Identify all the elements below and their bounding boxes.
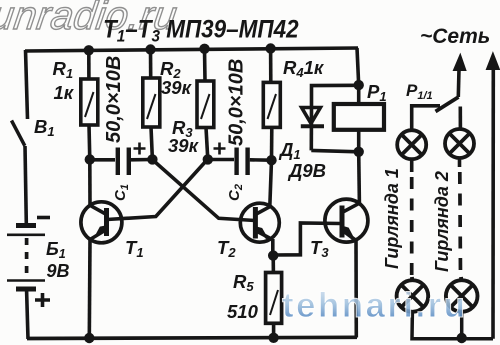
mains arrow right wire <box>486 53 499 339</box>
wire node A to T1 collector <box>88 160 92 206</box>
wire T2 emitter to T3 base <box>273 223 340 255</box>
wire diode branch top <box>312 85 359 108</box>
wire top rail <box>25 48 358 51</box>
label D1 Д9В <box>278 139 326 181</box>
watermark unradio.ru <box>0 0 180 38</box>
capacitor C2 <box>237 148 248 176</box>
junction dot T1 emitter at rail <box>84 333 94 343</box>
svg-text:Гирлянда 1: Гирлянда 1 <box>382 168 402 269</box>
svg-text:R41к: R41к <box>283 57 325 80</box>
switch B1 <box>12 121 25 146</box>
wire diode bottom to T3 collector node <box>311 150 358 151</box>
mains arrow left (P1/1 common) <box>453 54 466 97</box>
capacitor C1 <box>118 148 129 176</box>
resistor R3 <box>197 81 214 128</box>
wire C2 to node D <box>250 158 272 162</box>
wire R3 bottom lead <box>206 128 208 160</box>
svg-text:tehnari.ru: tehnari.ru <box>282 286 467 325</box>
svg-text:1к: 1к <box>54 82 75 103</box>
resistor R4 <box>263 82 280 127</box>
label R3 39к <box>168 117 200 156</box>
wire T3 emitter to bottom rail <box>354 241 358 338</box>
wire switch to battery <box>25 146 26 223</box>
svg-text:~Сеть: ~Сеть <box>420 25 490 48</box>
battery plus sign <box>35 293 50 307</box>
junction node C <box>203 154 213 164</box>
junction node B <box>147 154 157 164</box>
junction dot R5 at rail <box>268 333 278 343</box>
wire garland bottom rail <box>412 312 493 339</box>
svg-text:39к: 39к <box>161 77 193 98</box>
wire node B to T2 base (diagonal) <box>153 160 255 221</box>
resistor R5 <box>266 273 282 324</box>
transistor T3 <box>325 199 368 242</box>
wire P1/1 left contact <box>412 106 440 131</box>
junction dot node R2 top <box>145 44 155 54</box>
svg-text:Т1–Т3 МП39–МП42: Т1–Т3 МП39–МП42 <box>103 15 299 45</box>
wire node C to T1 base (diagonal) <box>107 161 207 220</box>
transistor T2 <box>240 203 279 242</box>
junction node A <box>85 154 95 164</box>
relay P1 coil <box>334 85 384 152</box>
wire T2 emitter down <box>271 239 275 255</box>
junction dot node R4 top <box>265 43 275 53</box>
lamp L2 top garland2 <box>445 129 474 158</box>
junction dot T3 collector node <box>354 147 364 157</box>
wire left rail top to switch <box>26 50 28 119</box>
battery Б1 <box>7 226 45 290</box>
svg-text:50,0×10В: 50,0×10В <box>226 59 248 146</box>
wire T1 emitter to bottom rail <box>88 240 92 339</box>
wire R5 top lead <box>271 256 275 273</box>
wire P1/1 right contact stub <box>458 107 462 130</box>
lamp L4 bottom garland2 <box>446 277 478 312</box>
battery minus sign <box>37 216 50 220</box>
junction dot node R1 top <box>84 45 94 55</box>
wire R2 top lead <box>149 49 153 78</box>
label R1 1к <box>53 58 75 103</box>
wire battery to bottom rail <box>27 291 28 339</box>
svg-text:9В: 9В <box>47 261 70 281</box>
svg-text:50,0×10В: 50,0×10В <box>103 56 125 143</box>
wire R5 bottom lead <box>272 323 276 338</box>
wire R3 top lead <box>203 49 207 82</box>
C2 plus sign <box>214 143 226 155</box>
junction dot T2 emitter node <box>268 250 278 260</box>
wire garland1 dashed <box>410 159 414 172</box>
label R5 510 <box>227 271 259 322</box>
resistor R2 <box>143 78 160 127</box>
wire R1 top lead <box>87 50 91 79</box>
wire lamp L4 to rail <box>460 312 464 339</box>
label R2 39к <box>160 58 193 98</box>
lamp L1 top garland1 <box>397 130 426 159</box>
wire R1 bottom lead <box>87 125 91 160</box>
switch P1/1 blade <box>436 97 459 112</box>
wire R2 bottom lead <box>151 127 152 159</box>
wire garland2 dashed <box>458 158 462 168</box>
lamp L3 bottom garland1 <box>397 277 429 312</box>
label Б1 9В <box>46 239 70 281</box>
title T1-T3 МП39-МП42 <box>103 15 299 45</box>
wire R4 bottom lead <box>270 127 274 160</box>
svg-text:39к: 39к <box>168 135 200 156</box>
wire bottom rail <box>27 337 357 338</box>
junction dot P1 top node <box>354 80 364 90</box>
wire top rail right corner down to P1 node <box>357 48 359 85</box>
svg-text:Гирлянда 2: Гирлянда 2 <box>432 171 452 272</box>
junction dot garland rail <box>457 333 467 343</box>
wire node C to C2 <box>208 158 234 162</box>
svg-text:Д9В: Д9В <box>287 160 326 181</box>
wire to T3 collector <box>357 152 361 203</box>
C1 plus sign <box>134 143 146 155</box>
diode D1 <box>301 107 324 150</box>
wire node A to C1 <box>90 158 115 162</box>
wire R4 top lead <box>269 49 273 83</box>
wire C1 to node B <box>131 158 152 162</box>
transistor T1 <box>81 202 122 243</box>
junction dot node R3 top <box>199 44 209 54</box>
wire node D to T2 collector <box>270 160 272 207</box>
svg-text:510: 510 <box>227 301 259 322</box>
resistor R1 <box>81 79 98 125</box>
junction node D <box>266 155 276 165</box>
